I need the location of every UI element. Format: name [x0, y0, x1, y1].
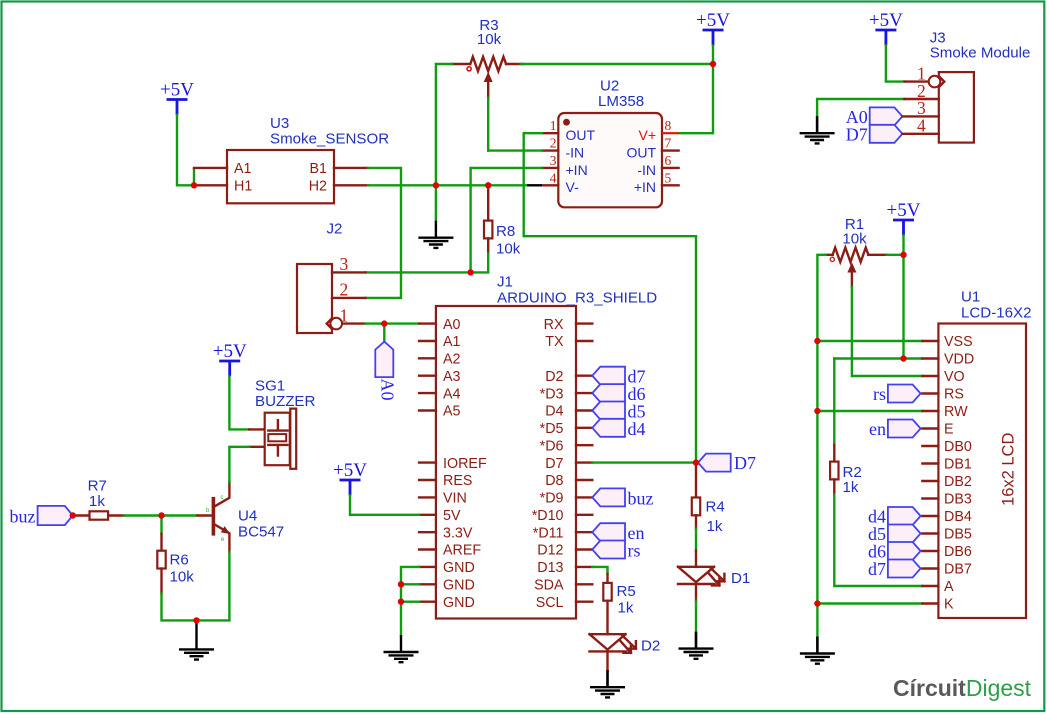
wire +IN to J2 pin3 column	[471, 168, 542, 273]
svg-text:SDA: SDA	[534, 578, 564, 594]
node junction buz tag	[70, 512, 76, 518]
svg-text:10k: 10k	[496, 240, 521, 257]
U2 pin 6 stub	[662, 167, 679, 169]
wire R6/emitter to ground	[162, 552, 230, 620]
J1 right pin stubs	[576, 324, 592, 602]
wire R3 right to +5V	[521, 63, 713, 65]
net tag rs (D12)	[592, 541, 625, 559]
svg-text:A1: A1	[234, 161, 252, 177]
connector J2 body	[297, 264, 332, 333]
wire H2 to U2 V-	[368, 184, 527, 186]
transistor U4 base stub	[198, 514, 212, 516]
svg-text:SCL: SCL	[536, 595, 564, 611]
svg-text:RS: RS	[944, 387, 964, 403]
wire +5V to 5V pin	[350, 496, 419, 515]
J3 pin1 stub	[905, 80, 929, 82]
svg-text:K: K	[944, 597, 954, 613]
svg-text:d7: d7	[868, 559, 886, 579]
LED D1	[678, 567, 724, 586]
svg-text:U3: U3	[270, 115, 289, 132]
svg-text:A0: A0	[378, 379, 398, 401]
wire R3 left to ground drop	[436, 64, 453, 221]
svg-text:*D11: *D11	[533, 525, 564, 541]
svg-text:D2: D2	[545, 369, 563, 385]
svg-text:7: 7	[665, 136, 672, 151]
wire VSS	[817, 340, 922, 342]
svg-text:LM358: LM358	[598, 93, 644, 110]
svg-text:buz: buz	[628, 488, 654, 508]
wire R1 wiper to VO	[852, 287, 923, 376]
wire R1 left / left rail	[817, 255, 825, 637]
power +5V (U3 supply)	[160, 80, 194, 116]
R5 bottom lead to D2	[606, 601, 608, 635]
net tag d6 (DB6)	[888, 542, 921, 560]
resistor R2 body	[830, 462, 838, 480]
svg-text:D1: D1	[731, 570, 750, 587]
svg-text:6: 6	[665, 153, 672, 168]
net tag d6 (D3)	[592, 384, 625, 402]
net tag A0 (J3 pin3)	[870, 107, 903, 125]
J3 ground stem	[816, 116, 818, 133]
net tag A0 (vertical)	[375, 342, 393, 378]
svg-text:buz: buz	[10, 507, 36, 527]
svg-text:CírcuitDigest: CírcuitDigest	[893, 675, 1032, 701]
J3 pin4 stub	[902, 133, 938, 135]
svg-text:*D10: *D10	[532, 508, 564, 524]
svg-text:Smoke_SENSOR: Smoke_SENSOR	[270, 131, 389, 148]
resistor R6 top lead	[160, 516, 162, 534]
wire R2 top branch	[833, 359, 835, 445]
net tag buz (D9)	[592, 488, 625, 506]
resistor R4 top lead	[695, 464, 697, 498]
U2 pin 1 stub	[542, 132, 558, 134]
svg-text:DB5: DB5	[944, 527, 972, 543]
potentiometer R1 zigzag	[833, 248, 869, 262]
svg-text:+IN: +IN	[566, 162, 588, 178]
svg-text:A0: A0	[443, 317, 461, 333]
svg-text:R4: R4	[706, 498, 725, 515]
LED D2	[590, 634, 636, 653]
svg-text:AREF: AREF	[443, 543, 481, 559]
svg-text:H2: H2	[309, 178, 327, 194]
svg-text:U4: U4	[238, 508, 257, 525]
svg-text:RX: RX	[544, 317, 564, 333]
svg-text:D8: D8	[545, 473, 563, 489]
svg-text:Smoke Module: Smoke Module	[930, 45, 1031, 62]
net tag D7	[698, 454, 731, 472]
resistor R4 body	[692, 498, 700, 516]
wire B1 to J2 pin2	[366, 168, 402, 298]
wire A1 to H1 link	[193, 169, 195, 185]
LCD ground stem	[816, 637, 818, 654]
J3 pin1 inverted circle	[929, 76, 941, 88]
node junction K rail	[814, 600, 820, 606]
ground (D1)	[679, 632, 714, 659]
svg-text:B1: B1	[310, 161, 328, 177]
svg-text:DB1: DB1	[944, 457, 972, 473]
svg-text:D7: D7	[846, 124, 868, 144]
D2 ground stem	[606, 670, 608, 687]
wire D7 to LED column	[592, 461, 696, 463]
power +5V (J1 5V pin)	[333, 460, 367, 496]
svg-text:R5: R5	[617, 583, 636, 600]
node junction H2/R8	[485, 182, 491, 188]
net tag D7 (J3 pin4)	[870, 125, 903, 143]
svg-text:en: en	[869, 419, 886, 439]
svg-text:1k: 1k	[89, 493, 105, 510]
svg-text:d4: d4	[628, 419, 646, 439]
svg-text:DB4: DB4	[944, 509, 972, 525]
R1 pot marker circle	[830, 257, 834, 261]
J2 pin 1 inverted circle	[330, 318, 342, 330]
svg-text:U1: U1	[961, 289, 980, 306]
node junction D7 net	[693, 459, 699, 465]
wire +5V stem to R3	[712, 46, 714, 65]
node junction RW rail	[814, 408, 820, 414]
connector J3 body	[939, 72, 974, 143]
U2 pin 3 stub	[542, 167, 558, 169]
shield J1 body	[436, 306, 576, 619]
U2 orientation dot	[563, 119, 570, 126]
svg-text:-IN: -IN	[566, 145, 585, 161]
resistor R5 body	[603, 583, 611, 601]
J1 left pin stubs	[419, 324, 436, 602]
node junction VDD	[900, 355, 906, 361]
resistor R7 left lead	[74, 514, 90, 516]
power +5V (J3)	[869, 10, 903, 46]
node junction A0 net tag	[381, 320, 387, 326]
svg-text:RES: RES	[443, 473, 472, 489]
svg-text:4: 4	[917, 116, 926, 136]
wire +5V stem down	[902, 236, 904, 359]
svg-text:1k: 1k	[618, 600, 634, 617]
wire R8 to J2 pin3	[366, 253, 489, 272]
buzzer ground stem	[195, 620, 197, 632]
U3 pin A1 stub	[194, 167, 227, 169]
net tag d5 (D4)	[592, 402, 625, 420]
wire K	[817, 602, 922, 604]
U2 pin 5 stub	[662, 184, 679, 186]
U2 pin 4 stub	[542, 184, 558, 186]
D1 cathode lead	[695, 584, 697, 601]
svg-text:2: 2	[340, 280, 349, 300]
svg-text:GND: GND	[443, 578, 475, 594]
svg-text:OUT: OUT	[626, 145, 656, 161]
D1 anode lead	[695, 550, 697, 566]
resistor R7 body	[90, 511, 109, 519]
net tag d7 (D2)	[592, 367, 625, 385]
transistor U4 base bar	[212, 499, 216, 534]
wire +5V down to U2 pin8	[679, 64, 713, 133]
svg-text:3.3V: 3.3V	[443, 525, 473, 541]
wire R2 to A pin	[834, 494, 922, 586]
R3 right lead	[506, 63, 523, 65]
svg-text:DB2: DB2	[944, 474, 972, 490]
wire OUT to D7 net	[524, 133, 696, 460]
node junction R1/+5V	[900, 252, 906, 258]
svg-text:D4: D4	[545, 404, 563, 420]
resistor R5 top lead	[606, 574, 608, 583]
resistor R2 top lead	[833, 445, 835, 462]
D1 ground stem	[695, 632, 697, 649]
wire buzzer bottom to collector	[229, 447, 249, 482]
svg-text:*D3: *D3	[540, 386, 564, 402]
node junction H1/+5V	[191, 182, 197, 188]
net tag en (D11)	[592, 523, 625, 541]
R6 bottom lead	[160, 569, 162, 594]
svg-text:RW: RW	[944, 404, 968, 420]
svg-text:D7: D7	[545, 456, 563, 472]
svg-text:A1: A1	[443, 334, 461, 350]
net tag d4 (D5)	[592, 419, 625, 437]
wire RW	[817, 410, 922, 412]
buzzer inner top plate	[268, 420, 287, 430]
R1 wiper arrow	[851, 273, 853, 288]
wire R3 wiper to -IN	[488, 149, 542, 151]
resistor R8 body	[484, 221, 492, 239]
U3 pin H2 stub	[334, 184, 368, 186]
svg-text:LCD-16X2: LCD-16X2	[961, 305, 1031, 322]
transistor U4 emitter	[215, 525, 230, 552]
svg-text:A3: A3	[443, 369, 461, 385]
J2 pin 3 stub	[332, 271, 366, 273]
svg-text:GND: GND	[443, 595, 475, 611]
R7 right lead	[108, 514, 124, 516]
LCD U1 body	[938, 324, 1026, 619]
svg-text:D13: D13	[537, 560, 563, 576]
node junction J2.3/+IN	[467, 269, 473, 275]
buzzer side plate	[290, 409, 296, 469]
power +5V (buzzer)	[213, 341, 247, 377]
net tag buz (source)	[38, 506, 73, 525]
buzzer top lead	[249, 428, 265, 430]
svg-text:D7: D7	[734, 453, 756, 473]
U2 pin 2 stub	[542, 149, 558, 151]
net tag d7 (DB7)	[888, 560, 921, 578]
ground (J1)	[384, 635, 419, 662]
node junction GND3	[398, 599, 404, 605]
svg-text:V-: V-	[566, 179, 580, 195]
wire D13 to R5	[592, 567, 607, 574]
ground (buzzer/R6)	[179, 632, 214, 659]
svg-text:U2: U2	[600, 78, 619, 95]
svg-text:VO: VO	[944, 369, 965, 385]
smoke sensor U3 body	[227, 150, 334, 203]
op-amp U2 body	[558, 113, 662, 207]
U2 pin 7 stub	[662, 149, 679, 151]
wire +5V to J3 pin1	[886, 46, 905, 82]
svg-text:rs: rs	[873, 384, 886, 404]
node junction R3/+5V/V+	[710, 61, 716, 67]
U1 pin stubs	[922, 341, 938, 604]
svg-text:4: 4	[550, 170, 557, 185]
J3 pin1 clock mark	[940, 77, 944, 86]
svg-text:ARDUINO_R3_SHIELD: ARDUINO_R3_SHIELD	[497, 289, 657, 306]
R3 wiper arrow	[487, 82, 489, 98]
svg-text:E: E	[944, 422, 954, 438]
buzzer inner bottom plate	[268, 445, 287, 456]
svg-text:e: e	[221, 537, 225, 543]
wire R4 to D1	[695, 529, 697, 551]
svg-text:10k: 10k	[170, 569, 195, 586]
svg-text:1: 1	[340, 305, 349, 325]
R8 bottom lead	[487, 238, 489, 253]
J2 pin 2 stub	[332, 297, 366, 299]
R4 bottom lead	[695, 515, 697, 528]
svg-text:V+: V+	[638, 127, 656, 143]
power +5V (LCD)	[887, 200, 921, 236]
svg-text:A4: A4	[443, 386, 461, 402]
svg-text:J1: J1	[497, 274, 513, 291]
svg-text:DB0: DB0	[944, 439, 972, 455]
buzzer inner element	[268, 434, 286, 441]
potentiometer R3 zigzag	[470, 57, 506, 71]
svg-text:R6: R6	[170, 551, 189, 568]
R1 right lead	[868, 254, 887, 256]
wire VDD row	[834, 357, 922, 359]
wire R7 to base	[124, 514, 198, 516]
U3 pin H1 stub	[197, 184, 227, 186]
svg-text:+IN: +IN	[634, 179, 656, 195]
wire GND pins to ground	[401, 567, 419, 635]
svg-text:D2: D2	[641, 638, 660, 655]
node junction base/R6	[158, 512, 164, 518]
svg-text:OUT: OUT	[566, 127, 596, 143]
D2 cathode lead	[606, 651, 608, 670]
svg-text:DB3: DB3	[944, 492, 972, 508]
svg-text:*D6: *D6	[540, 438, 564, 454]
node junction VSS rail	[814, 338, 820, 344]
wire A0 tag stub	[383, 324, 385, 342]
ground (D2)	[590, 670, 625, 697]
node junction ground row	[193, 617, 199, 623]
wire +5V to H1	[177, 115, 191, 185]
wire +5V to buzzer top	[229, 377, 249, 430]
J3 pin3 stub	[902, 115, 938, 117]
svg-text:VSS: VSS	[944, 334, 973, 350]
svg-text:5V: 5V	[443, 508, 461, 524]
svg-text:*D9: *D9	[540, 491, 564, 507]
svg-text:3: 3	[550, 153, 557, 168]
svg-text:A: A	[944, 579, 954, 595]
net tag d5 (DB5)	[888, 525, 921, 543]
svg-text:2: 2	[550, 136, 557, 151]
svg-text:BC547: BC547	[238, 523, 284, 540]
svg-text:VDD: VDD	[944, 352, 974, 368]
transistor U4 collector	[215, 482, 230, 506]
node junction H2/ground drop	[433, 182, 439, 188]
R2 bottom lead	[833, 479, 835, 494]
ground (LCD)	[800, 637, 835, 664]
svg-text:3: 3	[340, 254, 349, 274]
net tag d4 (DB4)	[888, 507, 921, 525]
svg-text:b: b	[206, 508, 210, 514]
svg-text:16x2 LCD: 16x2 LCD	[1000, 433, 1018, 506]
svg-text:*D5: *D5	[540, 421, 564, 437]
net tag en (E pin)	[888, 420, 921, 438]
J2 pin 1 stub	[343, 322, 366, 324]
wire J3 pin2 to ground	[817, 99, 904, 116]
U4 emitter arrow	[221, 526, 230, 534]
wire D1 to ground	[695, 601, 697, 632]
svg-text:D12: D12	[537, 543, 563, 559]
svg-text:c: c	[221, 495, 224, 501]
R3 pot marker circle	[467, 67, 471, 71]
svg-text:-IN: -IN	[637, 162, 656, 178]
svg-text:8: 8	[665, 118, 672, 133]
svg-text:R8: R8	[496, 223, 515, 240]
node junction GND2	[398, 581, 404, 587]
svg-text:1: 1	[550, 118, 557, 133]
svg-text:1k: 1k	[707, 518, 723, 535]
svg-text:TX: TX	[545, 334, 564, 350]
R3 left lead	[452, 63, 470, 65]
svg-text:BUZZER: BUZZER	[255, 393, 315, 410]
power +5V (top middle)	[696, 10, 730, 46]
svg-text:1k: 1k	[843, 479, 859, 496]
svg-text:IOREF: IOREF	[443, 456, 487, 472]
svg-text:R7: R7	[88, 478, 107, 495]
svg-text:VIN: VIN	[443, 491, 467, 507]
net tag rs (RS pin)	[888, 385, 921, 403]
svg-text:DB6: DB6	[944, 544, 972, 560]
svg-text:A2: A2	[443, 352, 461, 368]
U3 pin B1 stub	[334, 167, 368, 169]
ground (under U2)	[418, 221, 453, 248]
resistor R6 body	[157, 551, 165, 569]
svg-text:DB7: DB7	[944, 562, 972, 578]
svg-text:rs: rs	[628, 541, 641, 561]
svg-text:H1: H1	[234, 178, 252, 194]
resistor R8 top lead	[487, 185, 489, 220]
wire J2 pin1 to J1 A0	[366, 322, 420, 324]
J3 pin2 stub	[905, 98, 939, 100]
svg-text:10k: 10k	[477, 31, 502, 48]
svg-text:GND: GND	[443, 560, 475, 576]
U2 pin 8 stub	[662, 132, 679, 134]
ground (J3)	[800, 116, 835, 143]
svg-text:10k: 10k	[842, 230, 867, 247]
svg-text:J2: J2	[327, 221, 343, 238]
R1 left lead	[826, 254, 833, 256]
black segment V-	[527, 184, 542, 186]
wire R1 right to +5V	[887, 254, 904, 256]
J2 pin 1 clock mark	[327, 319, 331, 328]
buzzer bottom lead	[249, 446, 265, 448]
buzzer SG1 body	[265, 413, 290, 466]
svg-text:A5: A5	[443, 404, 461, 420]
svg-text:5: 5	[665, 170, 672, 185]
